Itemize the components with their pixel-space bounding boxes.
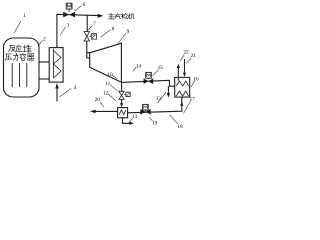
svg-text:15: 15 (158, 65, 164, 71)
svg-text:2: 2 (43, 37, 46, 43)
svg-text:8: 8 (112, 27, 115, 33)
svg-text:11: 11 (105, 81, 110, 87)
svg-text:1: 1 (23, 13, 26, 19)
svg-text:7: 7 (93, 21, 96, 27)
svg-text:18: 18 (177, 124, 183, 130)
svg-text:19: 19 (152, 121, 158, 127)
svg-text:16: 16 (193, 77, 199, 83)
svg-text:22: 22 (183, 50, 189, 56)
svg-text:13: 13 (132, 114, 138, 120)
svg-text:6: 6 (83, 2, 86, 8)
svg-text:20: 20 (95, 97, 101, 103)
svg-text:4: 4 (74, 85, 77, 91)
svg-text:12: 12 (103, 91, 109, 97)
svg-text:10: 10 (107, 72, 113, 78)
svg-text:21: 21 (191, 53, 197, 59)
svg-text:3: 3 (67, 23, 70, 29)
svg-text:13: 13 (156, 96, 162, 102)
svg-text:14: 14 (136, 64, 142, 70)
svg-text:17: 17 (190, 97, 196, 103)
svg-text:9: 9 (127, 29, 130, 35)
